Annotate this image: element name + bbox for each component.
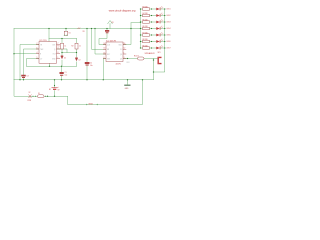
fuse F1 (38, 93, 45, 98)
wire battery bottom stub (54, 91, 56, 97)
wire IC2 row1 right from rail (123, 23, 131, 45)
wire speaker row mid (123, 58, 138, 60)
net label bottom wire (86, 103, 98, 105)
wire row1 left stub (141, 8, 143, 10)
wire row2 left stub (141, 15, 143, 17)
battery BT1 (49, 87, 60, 92)
switch S2 (29, 95, 32, 99)
wire row3 left stub (141, 21, 143, 23)
wire led bus right (154, 9, 165, 72)
ground symbol (124, 85, 130, 90)
LED LED7 (156, 45, 170, 49)
wire row6 middle (150, 41, 157, 43)
node row2 junctions (140, 15, 166, 16)
speaker SP1 (158, 57, 162, 65)
resistor R3 (143, 6, 150, 10)
wire speaker node down (153, 59, 155, 80)
wire VCC top rail (14, 28, 141, 30)
wire row1 right stub (161, 8, 165, 10)
wire gnd rail (14, 79, 154, 81)
LED LED6 (156, 39, 170, 43)
wire mid vertical to IC2 pin row3 (95, 29, 106, 55)
vcc supply arrow (108, 21, 113, 25)
node marks around switch (32, 96, 46, 97)
capacitor C4 (105, 30, 109, 33)
wire node horizontal (62, 52, 77, 54)
wire C1 top stub (61, 66, 63, 72)
wire row2 middle (150, 15, 157, 17)
wire IC1 bottom stub (49, 63, 51, 66)
wire row2 right stub (161, 15, 165, 17)
op-amp IC1 555 timer (36, 42, 60, 64)
wire IC1 pin1 left (20, 45, 39, 80)
wire row6 right stub (161, 41, 165, 43)
wire left outer vertical (13, 29, 15, 80)
node row5 junctions (140, 34, 166, 35)
wire row3 middle (150, 21, 157, 23)
wire row5 right stub (161, 34, 165, 36)
wire row7 left stub (141, 47, 143, 49)
wire R1 top stub (61, 39, 63, 44)
connector S1 under rail (64, 31, 71, 36)
LED LED4 (156, 26, 170, 30)
wire vcc arrow stub (109, 24, 111, 29)
junction dots (13, 28, 154, 97)
resistor R8 (143, 39, 150, 43)
wire R2 bottom (76, 49, 78, 58)
pin names IC1 (40, 44, 56, 60)
wire IC1 pin2 left to cap C3 (24, 49, 40, 75)
resistor R6 (143, 26, 150, 30)
node row3 junctions (140, 21, 166, 22)
wire cap C4 top stub (106, 29, 108, 31)
svg-text:IC1 555: IC1 555 (39, 40, 47, 42)
wire top feed (49, 38, 77, 40)
wire speaker row right (144, 58, 158, 60)
wire row4 right stub (161, 28, 165, 30)
node row7 junctions (140, 47, 166, 48)
wire bottom loop (68, 80, 143, 105)
resistor R1 (58, 43, 67, 49)
wire row5 left stub (141, 34, 143, 36)
wire row6 left stub (141, 41, 143, 43)
wire bottom left drop (14, 80, 68, 97)
wire row3 right stub (161, 21, 165, 23)
LED LED5 (156, 32, 170, 36)
wire D2 bottom (76, 62, 78, 67)
LED LED3 (156, 19, 170, 23)
node row4 junctions (140, 28, 166, 29)
pin names IC2 (107, 44, 123, 60)
pin numbers IC2 (104, 43, 126, 59)
diode D1 (61, 56, 66, 60)
wire drop from rail to IC1 top (48, 29, 50, 42)
resistor R7 (143, 32, 150, 36)
node speaker row junction (127, 58, 128, 59)
wire IC1 pin4 left down (27, 59, 40, 67)
wire R1 bottom node (61, 49, 63, 56)
wire row2 link (57, 49, 68, 53)
LED LED1 (156, 6, 170, 10)
LED LED2 (156, 13, 170, 17)
wire gnd symbol stub (127, 80, 129, 85)
capacitor C1 (60, 72, 68, 77)
wire IC2 row4 left to gnd (103, 59, 106, 80)
resistor R2 (72, 43, 81, 49)
wire mid vertical to C2 (86, 29, 88, 63)
pin numbers IC1 (37, 43, 59, 59)
wire C3 bottom stub (23, 77, 25, 80)
wire row5 middle (150, 34, 157, 36)
diode D2 (75, 58, 80, 62)
node row1 junctions (140, 8, 166, 9)
wire led bus left (140, 9, 142, 48)
wire C2 bottom stub (86, 65, 88, 80)
wire row1 middle (150, 8, 157, 10)
wire mid vertical to IC2 pin row2 (92, 29, 107, 50)
wire D1 bottom (61, 60, 63, 66)
svg-text:GND1: GND1 (88, 103, 93, 105)
wire row7 middle (150, 47, 157, 49)
wire rail stub to connector (65, 29, 67, 32)
wire R2 branch top (76, 39, 78, 44)
wire top right to led bus (131, 22, 141, 24)
wire IC1 pin3 left (14, 53, 39, 55)
wire row7 right stub (161, 47, 165, 49)
wire row4 middle (150, 28, 157, 30)
wire C1 bottom stub (61, 76, 63, 80)
wire node under IC1 (27, 65, 77, 67)
resistor R5 (143, 19, 150, 23)
svg-text:www.circuit-diagram.org: www.circuit-diagram.org (109, 9, 136, 12)
resistor R4 (143, 13, 150, 17)
node row6 junctions (140, 41, 166, 42)
resistor R9 (143, 45, 150, 49)
wire battery top stub (54, 80, 56, 88)
wire row4 left stub (141, 28, 143, 30)
resistor R10 (134, 56, 144, 61)
IC2 4017 counter (103, 42, 126, 62)
svg-text:4017N: 4017N (116, 64, 122, 66)
capacitor C3 (21, 75, 28, 78)
wire cap C4 to IC2 pin row1 (99, 33, 107, 44)
capacitor C2 (85, 62, 93, 67)
svg-text:IC2 4017B: IC2 4017B (106, 40, 117, 42)
svg-text:+: + (58, 87, 59, 89)
